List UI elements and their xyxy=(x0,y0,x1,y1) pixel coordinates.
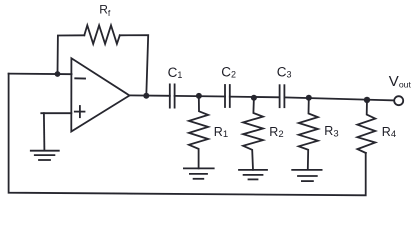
svg-text:Rf: Rf xyxy=(99,3,111,18)
svg-text:C3: C3 xyxy=(277,64,292,79)
svg-text:C2: C2 xyxy=(221,64,236,79)
svg-text:C1: C1 xyxy=(168,65,183,80)
svg-text:R4: R4 xyxy=(382,125,396,140)
svg-text:R1: R1 xyxy=(214,125,228,140)
svg-text:Vout: Vout xyxy=(389,73,412,90)
svg-text:R2: R2 xyxy=(269,125,283,140)
svg-text:R3: R3 xyxy=(324,124,338,139)
